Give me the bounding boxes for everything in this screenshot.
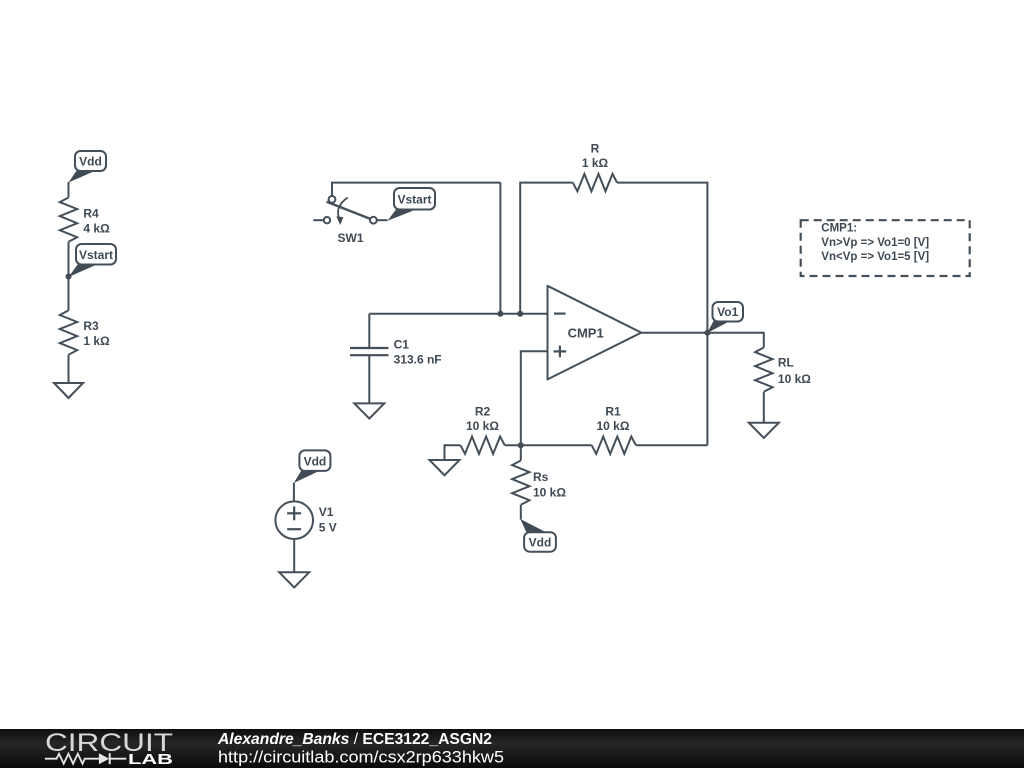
logo CIRCUIT LAB <box>45 729 173 768</box>
svg-text:CMP1:: CMP1: <box>821 223 857 235</box>
svg-text:Vdd: Vdd <box>79 155 102 169</box>
svg-text:Vstart: Vstart <box>79 248 113 262</box>
svg-text:http://circuitlab.com/csx2rp63: http://circuitlab.com/csx2rp633hkw5 <box>218 749 504 767</box>
node Vdd flag (below Rs) <box>520 519 556 552</box>
svg-text:10 kΩ: 10 kΩ <box>778 372 811 386</box>
svg-text:1 kΩ: 1 kΩ <box>83 334 110 348</box>
wire SW1 top rail <box>332 183 500 196</box>
wire SW1 pole stub <box>377 219 388 221</box>
wire junction to Rs <box>520 445 522 460</box>
svg-text:RL: RL <box>778 356 794 370</box>
resistor R <box>573 174 617 191</box>
wire SW1 rail down to inverting node <box>499 183 501 314</box>
ground (V1) <box>279 572 309 587</box>
wire output to RL <box>707 333 763 348</box>
svg-text:R1: R1 <box>605 405 621 419</box>
node Vdd flag (left top) <box>69 151 107 183</box>
wire feedback R row left vertical <box>520 183 573 314</box>
svg-text:10 kΩ: 10 kΩ <box>466 419 499 433</box>
svg-text:V1: V1 <box>319 505 334 519</box>
node Vo1 flag <box>707 302 743 333</box>
voltage source V1 <box>275 501 313 539</box>
svg-text:1 kΩ: 1 kΩ <box>582 156 609 170</box>
svg-text:4 kΩ: 4 kΩ <box>83 221 110 235</box>
junction output node Vo1 <box>704 330 710 336</box>
switch SW1 <box>313 196 377 225</box>
svg-text:SW1: SW1 <box>338 231 364 245</box>
ground (left branch) <box>54 383 83 398</box>
wire R2 left lead to ground <box>445 445 461 460</box>
resistor R4 <box>60 198 77 242</box>
junction Vstart node <box>66 274 72 280</box>
ground (R2) <box>430 460 460 475</box>
wire R4 to R3 <box>68 242 70 311</box>
wire non-inverting input row <box>521 351 548 445</box>
svg-text:Vo1: Vo1 <box>717 305 738 319</box>
node Vdd flag (V1) <box>294 450 331 483</box>
wire V1 to ground <box>293 539 295 572</box>
wire RL to ground <box>763 392 765 423</box>
svg-text:10 kΩ: 10 kΩ <box>597 419 630 433</box>
op-amp U1 CMP1 <box>548 286 642 380</box>
junction non-inverting node <box>518 442 524 448</box>
junction R rail on inverting row <box>517 311 523 317</box>
svg-text:Alexandre_Banks / ECE3122_ASGN: Alexandre_Banks / ECE3122_ASGN2 <box>217 731 492 748</box>
annotation box CMP1 behavior <box>801 220 970 276</box>
svg-text:R2: R2 <box>475 405 491 419</box>
wire Rs to Vdd flag <box>520 505 522 520</box>
wire R2 to R1 <box>505 444 592 446</box>
resistor R1 <box>592 437 636 454</box>
resistor R3 <box>60 310 77 354</box>
capacitor C1 <box>350 314 389 404</box>
svg-text:R: R <box>591 141 600 155</box>
svg-text:R3: R3 <box>83 319 99 333</box>
svg-text:R4: R4 <box>83 206 99 220</box>
svg-text:313.6 nF: 313.6 nF <box>394 353 442 367</box>
svg-text:Rs: Rs <box>533 470 549 484</box>
node Vstart flag (left) <box>69 244 117 277</box>
resistor R2 <box>460 437 504 454</box>
wire Vdd to R4 <box>68 182 70 198</box>
resistor RL <box>755 348 772 392</box>
wire op-amp output <box>641 332 707 334</box>
wire R to output vertical <box>617 183 707 333</box>
svg-text:LAB: LAB <box>128 752 173 768</box>
svg-text:10 kΩ: 10 kΩ <box>533 486 566 500</box>
svg-text:C1: C1 <box>394 338 410 352</box>
wire R1 to output vertical <box>636 444 708 446</box>
svg-text:CMP1: CMP1 <box>568 325 604 340</box>
wire Vdd flag to V1 <box>293 483 295 502</box>
svg-text:Vdd: Vdd <box>529 535 552 549</box>
svg-text:5 V: 5 V <box>319 521 337 535</box>
wire R3 to ground <box>68 355 70 383</box>
ground (C1) <box>354 403 384 418</box>
svg-text:Vn>Vp => Vo1=0 [V]: Vn>Vp => Vo1=0 [V] <box>821 237 929 249</box>
svg-text:Vdd: Vdd <box>304 454 327 468</box>
wire inverting input row <box>369 313 547 315</box>
svg-text:Vstart: Vstart <box>397 193 431 207</box>
svg-text:Vn<Vp => Vo1=5 [V]: Vn<Vp => Vo1=5 [V] <box>821 251 929 263</box>
resistor Rs <box>512 461 529 505</box>
ground (RL) <box>749 423 779 438</box>
junction SW1 rail on inverting row <box>497 311 503 317</box>
node Vstart flag (at SW1) <box>388 188 436 221</box>
wire output node down to R1 row <box>706 333 708 445</box>
